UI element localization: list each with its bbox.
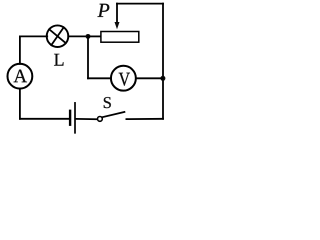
label S [104, 97, 111, 108]
wire voltmeter to right wire [136, 77, 163, 79]
node junction B (voltmeter/right wire) [160, 76, 165, 81]
wire top-left horizontal to lamp [20, 35, 47, 37]
wire junction to rheostat [88, 35, 100, 37]
label V (meter face) [119, 73, 130, 86]
battery short plate (negative) [69, 111, 71, 125]
rheostat P body [101, 32, 139, 43]
wire left vertical upper (corner to ammeter) [19, 36, 21, 64]
wire right vertical [162, 4, 164, 119]
label A (meter face) [14, 70, 27, 83]
wire voltmeter branch vertical [87, 36, 89, 78]
wire bottom-left horizontal to battery [20, 118, 69, 120]
label L [54, 54, 63, 66]
wire voltmeter branch horizontal [88, 77, 111, 79]
node junction A (lamp/rheostat/voltmeter) [86, 34, 91, 39]
wire battery to switch [76, 118, 97, 120]
switch S pivot circle [98, 117, 103, 122]
switch S blade [102, 112, 124, 117]
rheostat P slider arrow [115, 4, 120, 30]
wire lamp to junction node [68, 35, 88, 37]
battery long plate (positive) [74, 103, 76, 133]
lamp L [47, 25, 69, 47]
wire top horizontal [117, 3, 163, 5]
wire switch to bottom-right corner [126, 118, 163, 120]
voltmeter V [111, 66, 136, 91]
ammeter A [8, 64, 33, 89]
label P [97, 4, 109, 17]
wire left vertical lower (ammeter to bottom corner) [19, 89, 21, 119]
